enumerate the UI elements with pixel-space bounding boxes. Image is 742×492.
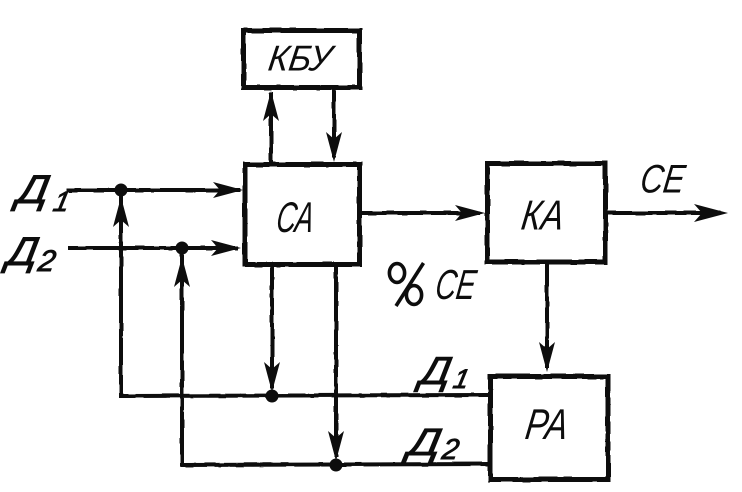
arrowhead into SA D1 (213, 182, 243, 198)
arrowhead down into RA (539, 342, 555, 372)
svg-text:Д: Д (401, 421, 445, 464)
block KA box (488, 164, 606, 263)
percent sign of %CE (389, 263, 423, 306)
svg-text:1: 1 (451, 363, 473, 394)
junction dot on feedback 2 (330, 459, 343, 472)
wire SA down output 1 (270, 267, 274, 386)
arrowhead up on V2 (174, 257, 190, 287)
svg-text:РА: РА (523, 401, 572, 449)
arrowhead down on SA output 2 (328, 431, 344, 461)
wire feedback vertical V2 (182, 256, 490, 465)
arrowhead down on SA output 1 (264, 362, 280, 392)
block KBU box (244, 31, 360, 88)
svg-text:СЕ: СЕ (638, 157, 689, 202)
svg-text:1: 1 (51, 185, 73, 217)
arrowhead into KA (455, 205, 485, 221)
arrowhead into SA D2 (211, 240, 241, 256)
wire SA down output 2 (334, 267, 338, 455)
wire D2 input (70, 246, 236, 250)
svg-text:Д: Д (10, 167, 53, 212)
wire KBU down to SA (332, 88, 336, 156)
junction dot on D2 (176, 242, 189, 255)
wire feedback vertical V1 (121, 198, 488, 396)
wire KA down to RA (545, 264, 549, 366)
svg-text:КБУ: КБУ (266, 38, 338, 79)
svg-text:СЕ: СЕ (433, 261, 480, 308)
arrowhead up on V1 (113, 197, 129, 227)
svg-text:КА: КА (519, 192, 568, 239)
arrowhead down into SA top (326, 132, 342, 162)
arrowhead CE output (694, 204, 728, 222)
wire D1 input (68, 188, 238, 192)
wire SA to KA (361, 211, 478, 215)
svg-text:Д: Д (413, 349, 455, 393)
wire KA output CE (606, 211, 718, 215)
svg-text:СА: СА (274, 194, 318, 242)
junction dot on feedback 1 (266, 390, 279, 403)
arrowhead up into KBU (263, 91, 279, 121)
wire SA up to KBU (269, 94, 273, 164)
block SA box (245, 165, 360, 265)
junction dot on D1 (115, 184, 128, 197)
svg-text:2: 2 (439, 434, 462, 466)
svg-text:Д: Д (0, 229, 42, 274)
block RA box (491, 377, 609, 480)
